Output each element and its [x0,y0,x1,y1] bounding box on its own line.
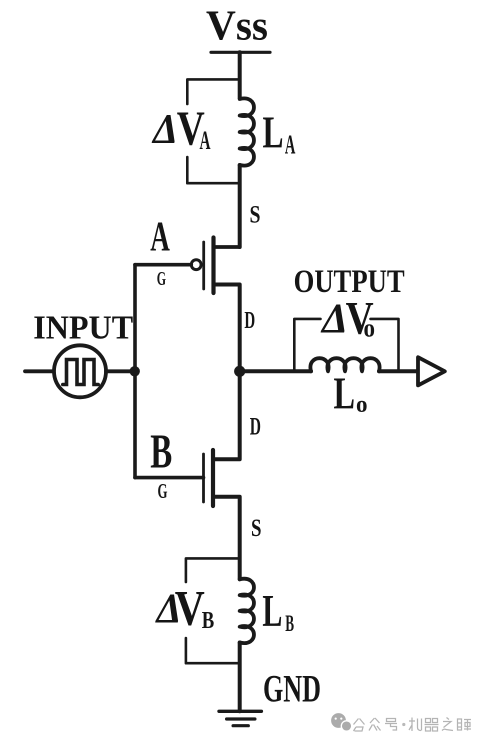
svg-text:B: B [150,424,172,479]
svg-text:D: D [244,308,255,334]
svg-text:Vss: Vss [206,4,268,50]
svg-text:A: A [150,215,170,261]
svg-text:o: o [356,392,368,418]
svg-text:INPUT: INPUT [33,310,133,347]
svg-text:A: A [200,126,211,155]
svg-text:o: o [364,314,376,343]
svg-text:B: B [202,608,215,634]
svg-text:L: L [334,369,356,419]
svg-text:Δ: Δ [320,296,348,342]
svg-text:B: B [285,611,294,636]
svg-text:V: V [175,579,205,635]
svg-text:A: A [285,130,296,160]
svg-text:G: G [157,268,167,290]
svg-text:S: S [250,201,261,228]
svg-text:GND: GND [263,667,321,710]
svg-text:L: L [262,586,282,636]
svg-text:Δ: Δ [151,107,178,153]
svg-text:L: L [263,107,284,157]
svg-text:D: D [250,414,261,441]
svg-text:S: S [251,515,262,542]
svg-text:G: G [158,479,168,503]
